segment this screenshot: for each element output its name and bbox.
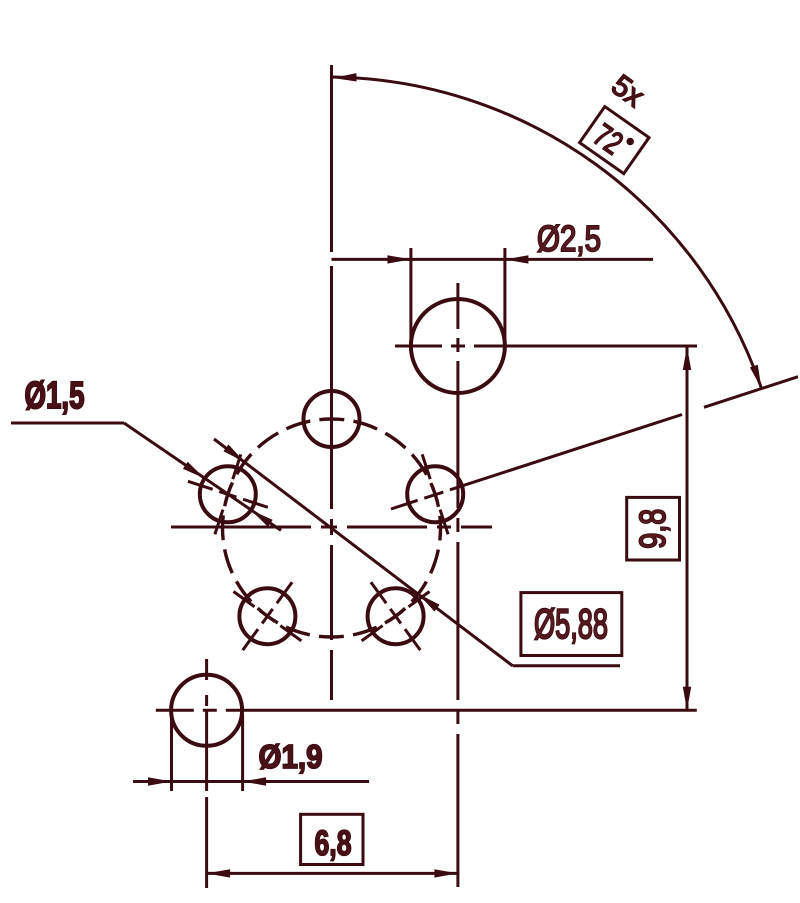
svg-text:Ø1,5: Ø1,5 (25, 375, 85, 417)
svg-text:Ø1,9: Ø1,9 (259, 738, 323, 775)
svg-text:9,8: 9,8 (632, 509, 673, 549)
svg-text:6,8: 6,8 (315, 824, 352, 863)
svg-text:Ø5,88: Ø5,88 (534, 600, 608, 647)
svg-text:Ø2,5: Ø2,5 (537, 218, 601, 259)
